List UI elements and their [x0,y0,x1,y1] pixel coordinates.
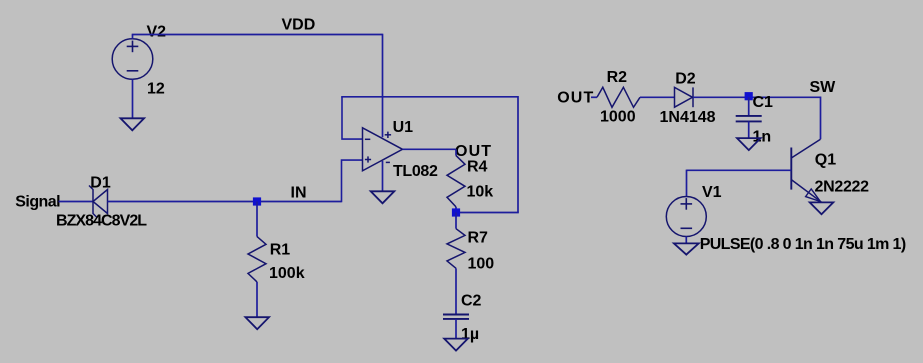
wire VDD vertical to op-amp supply [382,34,384,138]
wire feedback bottom to R4/R7 node [456,212,519,214]
op-amp U1 [363,128,403,171]
wire V2 top stub [132,35,134,39]
ground below op-amp [371,191,395,203]
wire op-amp negative supply down [382,161,384,191]
wire V1 bottom stub [685,237,687,244]
resistor R2 [597,87,640,107]
svg-text:BZX84C8V2L: BZX84C8V2L [56,213,147,230]
wire feedback top horizontal [341,96,518,98]
svg-text:12: 12 [147,80,165,97]
resistor R7 [455,213,457,229]
wire C2 to ground [455,319,457,339]
transistor Q1 [791,139,820,158]
svg-text:1000: 1000 [600,108,636,125]
svg-text:SW: SW [810,79,837,96]
ground below V2 [121,118,145,130]
voltage source V1 [666,197,706,237]
ground below R1 [245,317,269,329]
svg-text:1µ: 1µ [461,326,479,343]
wire op-amp output OUT [403,148,457,150]
svg-text:Signal: Signal [15,194,60,211]
diode D2 [675,87,693,107]
voltage source V2 [112,39,153,80]
svg-text:TL082: TL082 [393,163,438,180]
wire D1 to IN node [108,201,342,203]
op-amp minus input mark [365,138,370,140]
svg-text:D2: D2 [675,70,696,87]
capacitor C2 [443,314,469,316]
svg-text:10k: 10k [467,183,494,200]
svg-text:U1: U1 [393,119,414,136]
svg-text:100k: 100k [269,265,305,282]
junction R4/R7 feedback node [452,208,460,216]
wire SW down to Q1 collector [820,97,822,140]
svg-text:V1: V1 [702,184,722,201]
op-amp positive supply mark [385,134,391,136]
wire V1 top [686,170,688,197]
wire VDD horizontal [132,34,383,36]
wire Q1 base [687,169,792,171]
resistor R4 [455,149,457,155]
zener diode D1 [93,190,108,214]
svg-text:OUT: OUT [557,89,594,106]
svg-text:IN: IN [291,185,307,202]
svg-text:VDD: VDD [282,17,316,34]
wire feedback right vertical [517,96,519,213]
svg-text:PULSE(0 .8 0 1n 1n 75u 1m 1): PULSE(0 .8 0 1n 1n 75u 1m 1) [700,236,906,253]
svg-text:C1: C1 [753,94,774,111]
wire R2 to D2 [640,96,675,98]
wire R7 to C2 [455,268,457,314]
ground below C2 [444,339,468,351]
capacitor C1 [748,97,750,116]
svg-text:Q1: Q1 [815,152,836,169]
svg-text:1N4148: 1N4148 [660,109,716,126]
svg-text:D1: D1 [90,174,111,191]
svg-text:100: 100 [468,255,495,272]
resistor R1 [248,237,266,282]
junction C1 node [745,92,753,100]
wire IN rise to op-amp plus input [342,160,363,202]
wire OUT stub [591,96,597,98]
wire C1 to ground [748,121,750,138]
wire V2 bottom [132,79,134,118]
wire Signal to D1 anode [59,201,94,203]
op-amp plus input mark [365,159,371,161]
svg-text:C2: C2 [461,292,482,309]
op-amp negative supply mark [386,161,390,163]
svg-text:R7: R7 [468,229,489,246]
ground at Q1 emitter [810,202,834,214]
svg-text:R2: R2 [607,69,628,86]
svg-text:V2: V2 [147,24,167,41]
junction IN node [253,197,261,205]
wire D2 to SW [693,96,821,98]
wire R1 to ground [256,282,258,317]
svg-text:R1: R1 [270,241,291,258]
svg-text:OUT: OUT [455,143,492,160]
svg-text:2N2222: 2N2222 [815,178,870,195]
ground below V1 [674,243,699,254]
ground below C1 [737,138,761,150]
wire feedback left vertical to minus input [342,97,363,139]
svg-text:R4: R4 [467,159,488,176]
wire IN node down to R1 [256,202,258,237]
